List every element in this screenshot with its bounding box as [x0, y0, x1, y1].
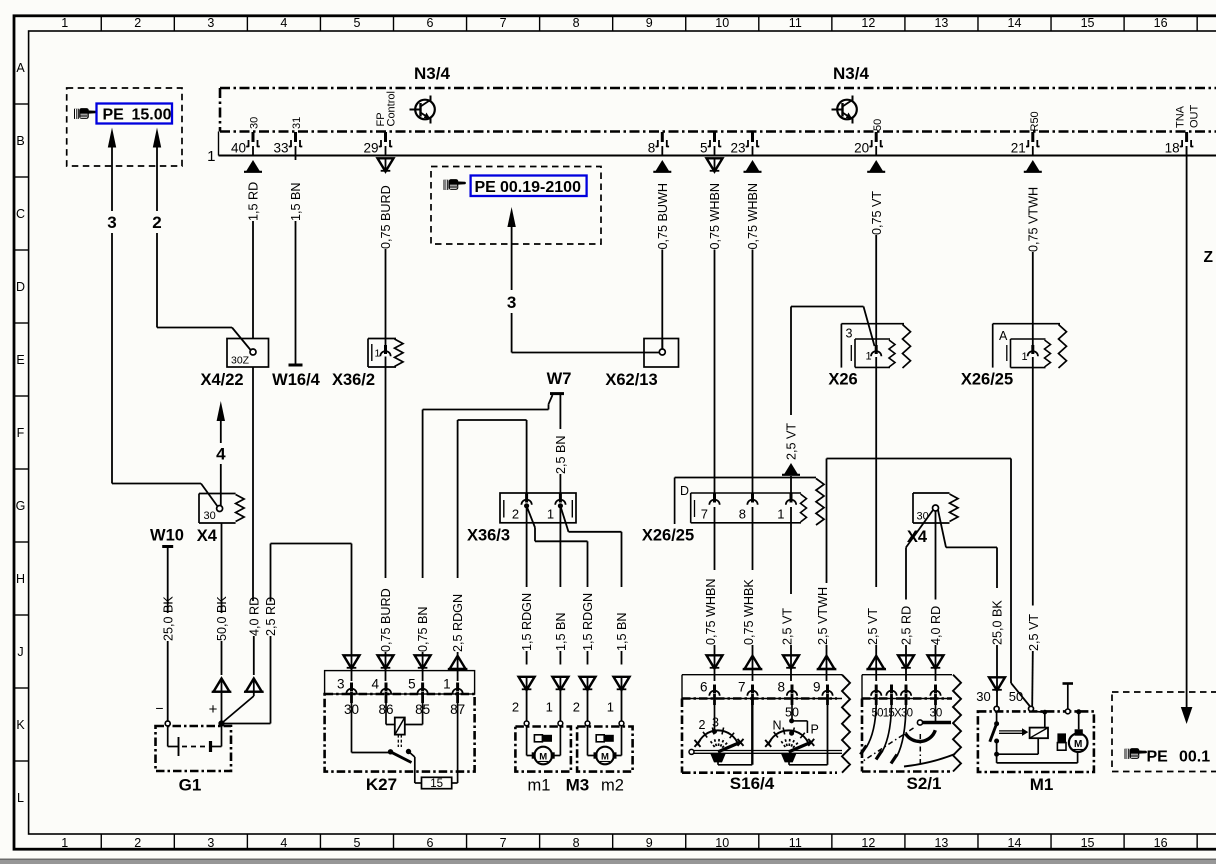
svg-text:14: 14	[1008, 836, 1022, 850]
svg-text:D: D	[680, 484, 689, 498]
grid top band	[61, 16, 1197, 31]
G1 minus terminal	[165, 721, 170, 726]
svg-text:S2/1: S2/1	[907, 774, 942, 793]
wire 25,0 BK from W10 to battery minus	[161, 547, 175, 722]
svg-text:50,0 BK: 50,0 BK	[215, 596, 229, 641]
svg-text:1,5 BN: 1,5 BN	[554, 612, 568, 651]
svg-text:1: 1	[547, 507, 554, 522]
M1 brushes	[1057, 733, 1066, 742]
hand icon PE 15.00	[74, 108, 97, 119]
X26/25 D pin 8 socket	[747, 494, 757, 505]
svg-text:1,5 BN: 1,5 BN	[289, 182, 303, 221]
svg-text:W16/4: W16/4	[272, 371, 321, 389]
m1 pin 2 terminal	[524, 721, 529, 726]
svg-text:0,75 VTWH: 0,75 VTWH	[1026, 187, 1040, 252]
svg-text:4,0 RD: 4,0 RD	[247, 597, 261, 636]
svg-text:5: 5	[700, 141, 708, 156]
N3/4 pin 5 connector bracket	[708, 132, 722, 147]
svg-text:2,5 VT: 2,5 VT	[781, 608, 795, 645]
svg-text:−: −	[155, 700, 163, 716]
svg-text:m2: m2	[601, 777, 624, 795]
S16/4 dash-dot housing	[681, 699, 684, 773]
svg-text:40: 40	[231, 141, 246, 156]
connector X4/22 (clip 30Z)	[227, 339, 269, 368]
ground point W10	[150, 527, 184, 547]
svg-text:8: 8	[777, 680, 785, 695]
wire 2,5 VT from X26 to S2/1 terminal 50	[866, 357, 886, 681]
wire 0,75 WHBN from N3/4 pin 23 to X26/25 D pin 8	[744, 160, 762, 496]
wire 0,75 BUWH from N3/4 pin 8 to X62/13	[653, 160, 671, 349]
S2/1 terminal X30 socket	[901, 685, 911, 706]
M1 motor loop wire	[996, 754, 998, 763]
svg-text:2,5 BN: 2,5 BN	[554, 435, 568, 474]
svg-text:8: 8	[573, 16, 580, 30]
wire 2,5 RD from battery + to K27 pin 3	[222, 544, 360, 724]
svg-text:9: 9	[646, 16, 653, 30]
X26/25 D pin 1 socket	[786, 494, 796, 505]
m2 motor armature	[596, 747, 614, 765]
svg-text:4: 4	[280, 16, 287, 30]
blue frame PE 00.19-2100	[471, 176, 587, 197]
S2/1 rotary contact	[917, 720, 922, 725]
ground point W16/4	[289, 364, 303, 367]
svg-text:1: 1	[375, 348, 381, 360]
svg-text:00.19-2100: 00.19-2100	[500, 179, 581, 196]
svg-text:X26/25: X26/25	[961, 371, 1013, 389]
svg-text:13: 13	[934, 16, 948, 30]
svg-text:3: 3	[846, 327, 853, 341]
svg-text:2,5 VTWH: 2,5 VTWH	[816, 587, 830, 645]
wire 0,75 BURD from N3/4 pin 29 to X36/2	[378, 158, 394, 345]
terminal 15 box	[422, 777, 452, 788]
svg-text:16: 16	[1154, 836, 1168, 850]
svg-text:X62/13: X62/13	[605, 371, 657, 389]
svg-text:1: 1	[546, 700, 553, 715]
svg-text:0,75 BURD: 0,75 BURD	[379, 185, 393, 249]
S16/4 selector shaft	[689, 749, 694, 754]
wire 2,5 VTWH from S16/4 pin 9 to M1 terminal 50	[816, 459, 1030, 708]
K27 connector strip	[325, 671, 475, 694]
svg-text:2: 2	[134, 16, 141, 30]
svg-text:K27: K27	[366, 775, 397, 794]
wire 1,5 BN X36/3 pin 1 to m2 pin 1 (cross-over)	[560, 506, 629, 721]
svg-text:23: 23	[730, 141, 745, 156]
svg-text:1: 1	[777, 507, 784, 522]
svg-text:8: 8	[648, 141, 656, 156]
svg-text:3: 3	[207, 16, 214, 30]
G1 plus terminal	[219, 721, 224, 726]
svg-text:13: 13	[934, 836, 948, 850]
K27 coil	[395, 718, 405, 735]
svg-text:12: 12	[861, 836, 875, 850]
svg-text:1: 1	[1022, 351, 1028, 363]
K27 dash-dot housing	[325, 694, 475, 772]
svg-text:0,75 WHBN: 0,75 WHBN	[746, 183, 760, 250]
svg-text:10: 10	[715, 16, 729, 30]
S16/4 wiper switch wafer (left fan)	[695, 699, 753, 765]
wire 1,5 BN X36/3 pin 1 to m1 pin 1	[552, 507, 568, 721]
M1 body ground stub	[1065, 709, 1070, 714]
svg-text:9: 9	[813, 680, 821, 695]
K27 switch to terminal 15	[409, 752, 415, 758]
M1 terminal 30	[994, 706, 999, 711]
S16/4 pin 9 socket	[822, 685, 832, 706]
svg-text:G: G	[16, 499, 26, 513]
svg-text:X36/3: X36/3	[467, 527, 510, 545]
svg-text:5: 5	[353, 836, 360, 850]
wire 0,75 VTWH from N3/4 pin 21 to X26/25 A	[1024, 160, 1042, 348]
svg-text:2,5 VT: 2,5 VT	[785, 423, 799, 460]
svg-text:29: 29	[363, 141, 378, 156]
svg-text:3: 3	[337, 677, 345, 692]
svg-text:50: 50	[1009, 689, 1023, 704]
wire 4,0 RD from X4 to S2/1 terminal 30	[928, 511, 944, 681]
PE 15.00 reference note box	[67, 88, 182, 166]
N3/4 pin 40 connector bracket	[246, 132, 260, 147]
wire 0,75 VT from N3/4 pin 20 to X26	[867, 160, 885, 348]
svg-text:8: 8	[739, 507, 746, 522]
svg-text:0,75 VT: 0,75 VT	[870, 191, 884, 235]
N3/4 pin 21 connector bracket	[1026, 132, 1040, 147]
svg-text:30: 30	[249, 117, 261, 129]
svg-text:M: M	[1074, 739, 1082, 750]
svg-text:30Z: 30Z	[231, 355, 250, 367]
wire 2,5 VT junction from X26 to X26/25 D pin 1	[782, 307, 875, 497]
svg-text:7: 7	[701, 507, 708, 522]
svg-text:33: 33	[273, 141, 288, 156]
svg-text:M: M	[539, 752, 547, 763]
svg-text:0,75 BN: 0,75 BN	[416, 606, 430, 652]
svg-text:C: C	[16, 207, 25, 221]
wire 1,5 BN from N3/4 pin 33 to W16/4	[289, 156, 303, 365]
hand icon PE 00.19-2100	[444, 179, 467, 190]
wire 0,75 WHBK X26/25 D pin 8 to S16/4 pin 7	[742, 507, 762, 681]
S2/1 zigzag edge	[953, 675, 961, 772]
washer pump motor m2	[573, 700, 633, 772]
svg-text:X4: X4	[197, 527, 218, 545]
svg-text:0,75 BURD: 0,75 BURD	[379, 588, 393, 652]
connector X26	[841, 324, 910, 368]
svg-text:1: 1	[61, 16, 68, 30]
hand icon PE 00.1	[1125, 748, 1148, 759]
svg-text:2,5 RD: 2,5 RD	[900, 606, 914, 645]
svg-text:3: 3	[712, 716, 719, 730]
S2/1 terminal 50 socket	[871, 685, 881, 706]
N3/4 pin 18 connector bracket	[1180, 132, 1194, 147]
S2/1 terminal 15 socket	[886, 685, 896, 706]
svg-text:15: 15	[430, 778, 443, 790]
svg-text:A: A	[16, 61, 25, 75]
svg-text:G1: G1	[179, 776, 202, 795]
svg-text:7: 7	[500, 16, 507, 30]
svg-text:1: 1	[207, 148, 215, 165]
svg-text:2,5 VT: 2,5 VT	[1027, 614, 1041, 651]
svg-text:2: 2	[134, 836, 141, 850]
svg-text:30: 30	[204, 510, 216, 522]
M1 solenoid coil	[1030, 728, 1048, 739]
svg-text:A: A	[999, 329, 1008, 343]
ignition switch S2/1	[861, 675, 962, 772]
svg-text:X26: X26	[828, 371, 857, 389]
svg-text:OUT: OUT	[1189, 105, 1201, 129]
svg-text:R50: R50	[1029, 111, 1041, 131]
m2 brush symbol	[596, 735, 604, 742]
m1 brush symbol	[534, 735, 542, 742]
svg-text:15: 15	[1081, 836, 1095, 850]
svg-text:4: 4	[280, 836, 287, 850]
svg-text:5: 5	[408, 677, 416, 692]
m1 internal wires	[526, 726, 528, 756]
svg-text:12: 12	[861, 16, 875, 30]
S16/4 washer switch wafer (right fan)	[765, 699, 827, 765]
wire TNA OUT from N3/4 pin 18 down to PE 00.1	[1181, 146, 1193, 724]
G1 cells	[167, 726, 169, 747]
M1 solenoid actuator link	[999, 730, 1022, 732]
svg-text:31: 31	[291, 117, 303, 129]
svg-text:S16/4: S16/4	[730, 774, 775, 793]
svg-text:2: 2	[573, 700, 580, 715]
starter motor M1	[976, 684, 1094, 773]
svg-text:X26/25: X26/25	[642, 527, 694, 545]
svg-text:21: 21	[1011, 141, 1026, 156]
wire 3 from PE 15.00 down to X4 clip	[107, 128, 218, 508]
M1 motor armature	[1069, 733, 1088, 752]
svg-text:4: 4	[371, 677, 379, 692]
svg-text:W7: W7	[547, 370, 572, 388]
K27 armature link	[397, 735, 399, 747]
N3/4 pin 23 connector bracket	[746, 132, 760, 147]
svg-text:11: 11	[789, 836, 802, 850]
svg-text:7: 7	[500, 836, 507, 850]
node 1 : internal bus bar of N3/4	[218, 132, 220, 156]
svg-text:50: 50	[785, 706, 799, 720]
K27 pin 5 socket	[417, 683, 427, 704]
svg-text:15: 15	[1081, 16, 1095, 30]
wire 3 from PE 00.19-2100 down to X62/13	[507, 207, 660, 353]
svg-text:1,5 RDGN: 1,5 RDGN	[520, 593, 534, 651]
svg-text:Z: Z	[1204, 249, 1214, 266]
wire 4 from X4 clip up to X4/22	[216, 401, 226, 506]
svg-text:2: 2	[512, 700, 519, 715]
svg-text:7: 7	[738, 680, 746, 695]
svg-text:J: J	[17, 645, 23, 659]
svg-text:4: 4	[216, 445, 226, 464]
S16/4 pin 7 socket	[747, 685, 757, 706]
m2 pin 2 terminal	[585, 721, 590, 726]
svg-text:16: 16	[1154, 16, 1168, 30]
wire 2,5 VT X26/25 D pin 1 to S16/4 pin 8	[781, 507, 799, 681]
connector X36/2	[368, 339, 403, 368]
svg-text:15.00: 15.00	[132, 106, 172, 123]
PE 00.1 reference note box (bottom right, cut off)	[1112, 692, 1216, 772]
grid bottom band	[61, 834, 1197, 850]
S2/1 dash-dot housing	[861, 699, 864, 772]
svg-text:20: 20	[854, 141, 869, 156]
svg-text:H: H	[16, 572, 25, 586]
wire 0,75 WHBN X26/25 D pin 7 to S16/4 pin 6	[704, 507, 722, 681]
wire 2,5 RD from X4 to S2/1 terminal 30	[898, 510, 933, 681]
svg-text:2,5 RD: 2,5 RD	[264, 597, 278, 636]
connector X62/13	[644, 339, 679, 368]
wire 2 from PE 15.00 down to X4/22 clip	[152, 128, 251, 351]
m1 pin 1 terminal	[558, 721, 563, 726]
ground point W7	[547, 370, 572, 394]
svg-text:5: 5	[353, 16, 360, 30]
X36/3 pin 2 junction dot	[525, 504, 529, 508]
wire 2,5 RDGN from K27 pin 1 to X36/3 pin 2	[448, 420, 527, 681]
bottom gray strip	[0, 859, 1216, 864]
battery G1	[155, 700, 231, 771]
S2/1 connector strip	[861, 675, 863, 699]
svg-text:X4/22: X4/22	[200, 371, 243, 389]
K27 switch contact 30	[351, 694, 353, 753]
X36/3 pin 1 junction dot	[558, 504, 562, 508]
svg-text:14: 14	[1008, 16, 1022, 30]
svg-text:2,5 RDGN: 2,5 RDGN	[451, 594, 465, 652]
svg-text:50: 50	[872, 119, 884, 131]
K27 pin 1 socket	[452, 683, 462, 704]
S16/4 pin 6 socket	[709, 685, 719, 706]
N3/4 pin 29 connector bracket	[379, 132, 393, 147]
svg-text:6: 6	[700, 680, 708, 695]
transistor symbol inside N3/4 (left)	[410, 96, 435, 124]
M1 solenoid switch	[996, 711, 998, 723]
connector X26/25 A	[993, 324, 1067, 368]
S16/4 zigzag edge	[842, 675, 850, 773]
svg-text:P: P	[811, 723, 819, 737]
svg-text:8: 8	[573, 836, 580, 850]
connector X4 (clip 30, left)	[199, 494, 244, 524]
washer pump motor m1	[512, 700, 571, 772]
svg-text:1,5 RD: 1,5 RD	[247, 182, 261, 221]
svg-text:2: 2	[699, 718, 706, 732]
svg-text:1,5 BN: 1,5 BN	[615, 612, 629, 651]
svg-text:6: 6	[427, 836, 434, 850]
K27 pin 3 socket	[346, 683, 356, 704]
svg-text:M: M	[601, 752, 609, 763]
svg-text:0,75 WHBK: 0,75 WHBK	[742, 579, 756, 645]
combination switch S16/4	[682, 675, 850, 773]
K27 pin 4 socket	[381, 683, 391, 704]
svg-text:N: N	[772, 719, 781, 733]
svg-text:PE: PE	[1147, 749, 1169, 766]
control unit N3/4 dash-dot box	[220, 88, 1216, 132]
svg-text:11: 11	[789, 16, 802, 30]
svg-text:2,5 VT: 2,5 VT	[866, 608, 880, 645]
svg-text:0,75 BUWH: 0,75 BUWH	[656, 183, 670, 250]
wire 0,75 WHBN from N3/4 pin 5 to X26/25 D pin 7	[707, 158, 723, 496]
svg-text:0,75 WHBN: 0,75 WHBN	[708, 183, 722, 250]
N3/4 pin 20 connector bracket	[869, 132, 883, 147]
svg-text:30: 30	[917, 511, 929, 523]
grid letter band	[14, 61, 29, 805]
svg-text:1: 1	[443, 677, 451, 692]
svg-text:F: F	[17, 426, 25, 440]
svg-text:25,0 BK: 25,0 BK	[991, 600, 1005, 645]
svg-text:L: L	[17, 791, 24, 805]
svg-text:9: 9	[646, 836, 653, 850]
transistor symbol inside N3/4 (right)	[832, 96, 857, 124]
connector X4 (clip 30, right)	[913, 493, 958, 523]
svg-text:1,5 RDGN: 1,5 RDGN	[581, 593, 595, 651]
svg-text:m1: m1	[528, 777, 551, 795]
wire 1,5 RD from N3/4 pin 40	[244, 160, 262, 339]
M1 terminal 50	[1029, 706, 1034, 711]
svg-text:2: 2	[512, 507, 519, 522]
svg-text:+: +	[209, 701, 218, 718]
svg-text:1: 1	[61, 836, 68, 850]
wire 25,0 BK from X4 to M1 terminal 30	[938, 510, 1005, 706]
svg-text:X36/2: X36/2	[332, 371, 375, 389]
relay K27	[325, 671, 475, 790]
S2/1 contact curves	[867, 705, 877, 747]
svg-text:25,0 BK: 25,0 BK	[161, 596, 175, 641]
svg-text:18: 18	[1165, 141, 1180, 156]
svg-text:1: 1	[866, 351, 872, 363]
svg-text:D: D	[16, 280, 25, 294]
svg-text:6: 6	[427, 16, 434, 30]
PE 00.19-2100 reference note box	[431, 167, 601, 245]
K27 coil wires	[385, 694, 387, 725]
svg-text:M3: M3	[566, 776, 590, 795]
wire 0,75 BURD from X36/2 to K27 pin 4	[378, 367, 394, 681]
svg-text:W10: W10	[150, 527, 184, 545]
S2/1 mechanical link lines	[862, 728, 914, 762]
connector X36/3	[500, 493, 576, 523]
svg-text:30: 30	[976, 689, 990, 704]
M1 dash-dot housing	[978, 711, 1094, 772]
svg-text:10: 10	[715, 836, 729, 850]
svg-text:M1: M1	[1030, 775, 1054, 794]
wire 4,0 RD from X4/22 down to battery +	[223, 367, 264, 723]
K27 pin 87 wire	[457, 694, 459, 783]
svg-text:TNA: TNA	[1175, 105, 1187, 128]
svg-text:0,75 WHBN: 0,75 WHBN	[704, 579, 718, 646]
svg-text:3: 3	[207, 836, 214, 850]
m2 internal wires	[587, 726, 589, 756]
svg-text:PE: PE	[475, 179, 497, 196]
svg-text:2: 2	[152, 213, 161, 232]
wire 0,75 BN from W7 to K27 pin 5	[415, 395, 553, 681]
S16/4 pin 8 socket	[787, 685, 797, 706]
svg-text:3: 3	[507, 293, 516, 312]
svg-text:5015X30: 5015X30	[872, 708, 914, 720]
wire 1,5 RDGN X36/3 pin 2 to m2 pin 2 (cross-over)	[527, 506, 596, 721]
wire 50,0 BK from X4 to battery +	[212, 523, 232, 721]
wire 1,5 RDGN X36/3 pin 2 to m1 pin 2	[519, 507, 535, 721]
svg-text:K: K	[16, 718, 25, 732]
m2 pin 1 terminal	[619, 721, 624, 726]
m1 motor armature	[534, 747, 552, 765]
svg-text:E: E	[16, 353, 24, 367]
blue frame PE 15.00	[97, 104, 173, 124]
svg-text:N3/4: N3/4	[833, 64, 869, 83]
N3/4 pin 8 connector bracket	[656, 132, 670, 147]
svg-text:1: 1	[607, 700, 614, 715]
N3/4 pin 33 connector bracket	[289, 132, 303, 147]
wire 2,5 VT from X26/25 A to M1 terminal 50	[1027, 357, 1041, 706]
S16/4 connector strip	[681, 675, 683, 699]
svg-text:N3/4: N3/4	[414, 64, 450, 83]
svg-text:B: B	[16, 134, 24, 148]
svg-text:3: 3	[107, 213, 116, 232]
X26/25 D pin 7 socket	[709, 494, 719, 505]
wire 2,5 BN from W7 to X36/3 pin 1	[554, 395, 568, 496]
connector X26/25 D	[675, 478, 824, 526]
svg-text:PE: PE	[103, 106, 125, 123]
svg-text:Control: Control	[386, 91, 398, 126]
svg-text:4,0 RD: 4,0 RD	[929, 606, 943, 645]
